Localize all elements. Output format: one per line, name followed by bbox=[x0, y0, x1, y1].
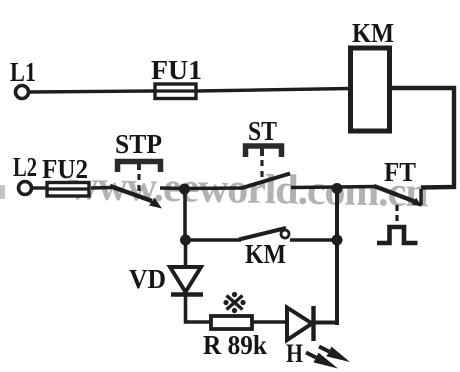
wire node A to ST bbox=[184, 186, 243, 190]
resistor R bbox=[211, 316, 252, 329]
label FU2 bbox=[42, 154, 88, 184]
svg-text:KM: KM bbox=[352, 18, 394, 48]
label H bbox=[286, 339, 303, 368]
svg-text:ST: ST bbox=[248, 116, 277, 146]
terminal L1 bbox=[16, 86, 29, 99]
terminal L2 bbox=[19, 182, 32, 195]
svg-text:FU2: FU2 bbox=[42, 154, 88, 184]
pushbutton actuator ST bbox=[246, 146, 282, 178]
label FU1 bbox=[151, 55, 202, 85]
label ST bbox=[248, 116, 277, 146]
wire KM contact to right node bbox=[290, 238, 338, 241]
svg-text:STP: STP bbox=[115, 129, 162, 159]
wire VD to bottom row bbox=[186, 295, 211, 322]
svg-text:KM: KM bbox=[245, 239, 286, 269]
node A junction bbox=[179, 184, 190, 195]
wire aux node to KM contact bbox=[185, 238, 241, 241]
svg-text:L2: L2 bbox=[13, 152, 37, 182]
svg-text:R 89k: R 89k bbox=[203, 330, 267, 360]
auxiliary contact KM (NO self-holding) bbox=[239, 228, 289, 240]
thermal relay contact FT (NC) bbox=[374, 186, 422, 222]
label STP bbox=[115, 129, 162, 159]
svg-text:L1: L1 bbox=[10, 57, 36, 87]
junction dot left aux bbox=[180, 235, 191, 246]
wire FU1 to KM coil bbox=[197, 89, 350, 92]
label L2 bbox=[13, 152, 37, 182]
label R 89k bbox=[203, 330, 267, 360]
label KM coil bbox=[352, 18, 394, 48]
svg-text:FU1: FU1 bbox=[151, 55, 202, 85]
wire KM coil to right rail bbox=[390, 88, 454, 188]
contact blade ST (NO start button) bbox=[242, 174, 290, 189]
junction dot right aux bbox=[332, 235, 343, 246]
diode VD bbox=[170, 267, 203, 295]
svg-text:VD: VD bbox=[129, 264, 166, 294]
fuse FU1 bbox=[155, 84, 196, 99]
wire lamp to right rail bbox=[313, 321, 339, 325]
label VD bbox=[129, 264, 166, 294]
wire FU2 to STP bbox=[91, 186, 112, 190]
wire L1 to FU1 bbox=[29, 91, 155, 92]
indicator lamp H (LED) bbox=[287, 306, 314, 341]
wire node A down to aux node bbox=[183, 188, 187, 241]
label KM aux contact bbox=[245, 239, 286, 269]
wire L2 to FU2 bbox=[32, 186, 47, 189]
svg-text:H: H bbox=[286, 339, 303, 368]
wire right rail node B to lamp row bbox=[335, 188, 339, 325]
wire aux node to diode VD bbox=[184, 240, 188, 268]
contactor coil KM bbox=[351, 48, 390, 131]
svg-text:FT: FT bbox=[384, 157, 416, 187]
wire node B to FT bbox=[337, 185, 376, 189]
contact blade STP (NC stop button) bbox=[110, 186, 162, 209]
wire STP to node A bbox=[160, 186, 186, 190]
fuse FU2 bbox=[47, 183, 89, 197]
wire ST to node B bbox=[291, 185, 338, 189]
emission arrows bbox=[306, 347, 350, 369]
wire R to lamp H bbox=[253, 320, 288, 324]
label L1 bbox=[10, 57, 36, 87]
adjustment mark bbox=[223, 292, 245, 313]
node B junction bbox=[332, 183, 343, 194]
label FT bbox=[384, 157, 416, 187]
thermal element FT bbox=[377, 227, 418, 243]
pushbutton actuator STP bbox=[118, 162, 161, 196]
